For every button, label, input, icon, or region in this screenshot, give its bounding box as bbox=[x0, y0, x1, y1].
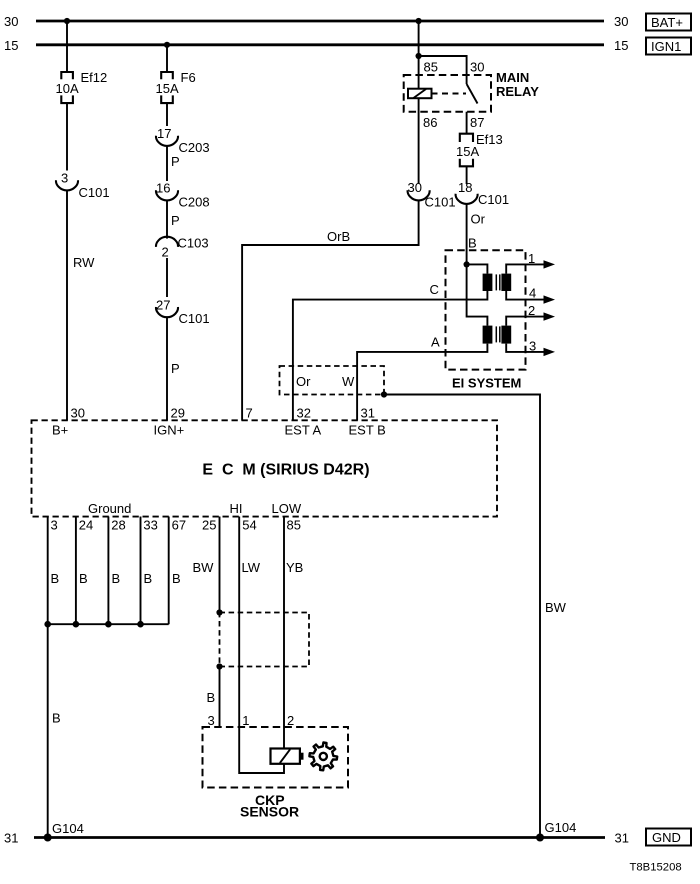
svg-text:SENSOR: SENSOR bbox=[240, 804, 299, 820]
BAT+ terminal box bbox=[646, 14, 691, 31]
svg-text:YB: YB bbox=[286, 560, 303, 575]
wire C from ECM pin 32 to coil1 bbox=[293, 282, 488, 421]
svg-text:Ground: Ground bbox=[88, 501, 131, 516]
fuse F6 15A bbox=[156, 70, 196, 103]
fuse Ef13 15A bbox=[456, 132, 503, 166]
svg-text:3: 3 bbox=[61, 171, 68, 186]
connector 17 C203 bbox=[156, 126, 210, 155]
connector 16 C208 bbox=[156, 181, 210, 210]
spark output 2 bbox=[506, 303, 555, 326]
ECM box bbox=[32, 420, 498, 516]
svg-text:OrB: OrB bbox=[327, 229, 350, 244]
wire B to CKP pin 3 bbox=[207, 667, 220, 728]
svg-text:3: 3 bbox=[51, 518, 58, 533]
junction on bus 30 at fuse Ef12 bbox=[64, 18, 70, 24]
svg-text:EI SYSTEM: EI SYSTEM bbox=[452, 376, 521, 391]
junction on bus 15 at fuse F6 bbox=[164, 42, 170, 48]
wire Or B from 18 C101 to EI system bbox=[467, 204, 486, 265]
svg-text:G104: G104 bbox=[52, 821, 84, 836]
CKP gear wheel bbox=[309, 743, 337, 771]
ECM pin 33 bbox=[141, 517, 158, 625]
ignition coil 1 secondary bbox=[501, 274, 511, 291]
wire fuse F6 to connector C203 bbox=[166, 103, 168, 126]
svg-text:C103: C103 bbox=[178, 236, 209, 251]
ECM pin 3 bbox=[48, 517, 59, 625]
wire B to coil1 primary bbox=[467, 264, 488, 273]
connector 18 C101 bbox=[456, 180, 510, 207]
svg-text:1: 1 bbox=[528, 251, 535, 266]
connector 3 C101 bbox=[56, 171, 110, 201]
fuse Ef12 10A bbox=[56, 70, 108, 103]
svg-text:3: 3 bbox=[529, 339, 536, 354]
wire P to connector C208 bbox=[167, 146, 180, 181]
svg-text:IGN+: IGN+ bbox=[154, 423, 185, 438]
ground bus join line bbox=[48, 623, 169, 625]
ECM pin 24 bbox=[76, 517, 93, 625]
svg-text:E C M (SIRIUS D42R): E C M (SIRIUS D42R) bbox=[202, 462, 369, 479]
ECM pin 67 bbox=[169, 517, 186, 625]
junction shield drain bbox=[381, 391, 387, 397]
svg-text:B: B bbox=[144, 571, 153, 586]
connector 30 C101 bbox=[408, 180, 456, 210]
svg-text:32: 32 bbox=[297, 406, 311, 421]
svg-text:B: B bbox=[52, 711, 61, 726]
svg-text:B: B bbox=[51, 571, 60, 586]
svg-text:RW: RW bbox=[73, 255, 95, 270]
svg-text:30: 30 bbox=[4, 14, 18, 29]
svg-text:BW: BW bbox=[193, 560, 215, 575]
svg-text:30: 30 bbox=[408, 180, 422, 195]
ignition coil 2 primary bbox=[483, 326, 493, 344]
ECM pin 29 label bbox=[154, 406, 185, 438]
svg-text:B+: B+ bbox=[52, 423, 68, 438]
svg-text:MAIN: MAIN bbox=[496, 70, 529, 85]
svg-text:2: 2 bbox=[528, 303, 535, 318]
svg-text:A: A bbox=[431, 335, 440, 350]
svg-text:GND: GND bbox=[652, 830, 681, 845]
ignition coil 2 core bbox=[496, 326, 500, 342]
svg-text:85: 85 bbox=[424, 60, 438, 75]
svg-text:C: C bbox=[430, 282, 439, 297]
wire A W from ECM pin 31 to coil2 bbox=[357, 335, 487, 421]
ECM pin 32 label bbox=[285, 406, 322, 438]
svg-text:2: 2 bbox=[162, 245, 169, 260]
svg-text:EST A: EST A bbox=[285, 423, 322, 438]
svg-text:29: 29 bbox=[171, 406, 185, 421]
junction on bus 30 at relay feed bbox=[416, 18, 422, 24]
svg-text:P: P bbox=[171, 213, 180, 228]
ECM bottom labels Ground HI LOW bbox=[88, 501, 302, 516]
GND terminal box bbox=[646, 829, 691, 846]
svg-text:31: 31 bbox=[361, 406, 375, 421]
wire B to G104 bbox=[48, 624, 61, 837]
svg-text:B: B bbox=[112, 571, 121, 586]
svg-text:86: 86 bbox=[423, 115, 437, 130]
ECM pin 25 BW wire bbox=[193, 517, 220, 613]
IGN1 terminal box bbox=[646, 38, 691, 55]
junction B in EI system bbox=[464, 261, 470, 267]
svg-text:Ef12: Ef12 bbox=[81, 70, 108, 85]
shield box around LW YB bbox=[220, 613, 310, 667]
svg-text:C101: C101 bbox=[478, 192, 509, 207]
svg-text:B: B bbox=[207, 690, 216, 705]
ECM pin 54 LW wire to CKP pin 1 bbox=[239, 517, 261, 728]
junction G104 right bbox=[536, 820, 576, 842]
svg-text:Ef13: Ef13 bbox=[476, 132, 503, 147]
ECM pin 28 bbox=[108, 517, 125, 625]
ECM pin 30 label bbox=[52, 406, 85, 438]
svg-text:Or: Or bbox=[296, 374, 311, 389]
svg-text:BAT+: BAT+ bbox=[651, 15, 683, 30]
svg-text:7: 7 bbox=[246, 406, 253, 421]
junction relay branch bbox=[416, 53, 422, 59]
ECM pin 85 YB wire to CKP pin 2 bbox=[284, 517, 303, 728]
junction shield top bbox=[216, 609, 222, 615]
svg-text:B: B bbox=[468, 236, 477, 251]
svg-text:B: B bbox=[79, 571, 88, 586]
svg-text:LOW: LOW bbox=[272, 501, 302, 516]
svg-text:15A: 15A bbox=[156, 81, 179, 96]
svg-text:30: 30 bbox=[470, 60, 484, 75]
svg-text:Or: Or bbox=[471, 212, 486, 227]
svg-text:2: 2 bbox=[287, 713, 294, 728]
svg-text:54: 54 bbox=[242, 518, 256, 533]
connector 2 C103 (dome) bbox=[156, 236, 209, 260]
ignition coil 1 primary bbox=[483, 274, 493, 291]
svg-text:C101: C101 bbox=[79, 185, 110, 200]
svg-text:28: 28 bbox=[111, 518, 125, 533]
svg-text:30: 30 bbox=[71, 406, 85, 421]
svg-text:27: 27 bbox=[156, 298, 170, 313]
main relay box bbox=[404, 60, 539, 131]
connector 27 C101 bbox=[156, 298, 210, 327]
svg-text:W: W bbox=[342, 374, 355, 389]
svg-text:30: 30 bbox=[614, 14, 628, 29]
CKP pin2 wire inside bbox=[283, 727, 285, 749]
svg-text:HI: HI bbox=[230, 501, 243, 516]
svg-text:3: 3 bbox=[208, 713, 215, 728]
svg-text:G104: G104 bbox=[545, 820, 577, 835]
svg-text:RELAY: RELAY bbox=[496, 84, 539, 99]
wire bus30 down to relay branch bbox=[418, 21, 420, 56]
svg-text:B: B bbox=[172, 571, 181, 586]
junction shield bottom bbox=[216, 663, 222, 669]
shield box around Or W bbox=[280, 366, 385, 395]
svg-text:F6: F6 bbox=[181, 70, 196, 85]
svg-text:31: 31 bbox=[4, 831, 18, 846]
wire branch to relay pin 30 bbox=[419, 56, 467, 84]
junction G104 left bbox=[44, 821, 84, 842]
svg-text:33: 33 bbox=[143, 518, 157, 533]
svg-text:IGN1: IGN1 bbox=[651, 39, 681, 54]
wire Ef13 to connector 18 C101 bbox=[466, 166, 468, 184]
svg-text:P: P bbox=[171, 154, 180, 169]
bus 31 (GND) bbox=[4, 831, 629, 846]
svg-text:85: 85 bbox=[287, 518, 301, 533]
wire BW shield drain to right side bbox=[384, 395, 567, 838]
svg-text:C208: C208 bbox=[179, 195, 210, 210]
spark output 4 bbox=[506, 286, 555, 304]
svg-text:18: 18 bbox=[458, 180, 472, 195]
ignition coil 2 secondary bbox=[501, 326, 511, 344]
svg-text:LW: LW bbox=[242, 560, 261, 575]
svg-text:16: 16 bbox=[156, 181, 170, 196]
svg-text:EST B: EST B bbox=[349, 423, 386, 438]
wire fuse Ef12 to connector C101 bbox=[66, 103, 68, 170]
CKP pin1 wire inside bbox=[239, 727, 284, 773]
svg-text:67: 67 bbox=[172, 518, 186, 533]
CKP pickup element bbox=[271, 749, 304, 764]
wire OrB from C101 to ECM pin 7 bbox=[242, 200, 419, 420]
relay switch blade bbox=[467, 84, 478, 104]
wire bus15 to fuse F6 bbox=[166, 45, 168, 72]
CKP sensor box bbox=[203, 727, 349, 820]
svg-text:1: 1 bbox=[242, 713, 249, 728]
wire relay pin 86 down bbox=[418, 98, 420, 183]
spark output 1 bbox=[506, 251, 555, 274]
svg-text:10A: 10A bbox=[56, 81, 79, 96]
svg-text:C101: C101 bbox=[425, 195, 456, 210]
wire B to coil2 primary bbox=[467, 264, 488, 325]
wire P to ECM pin 29 bbox=[167, 317, 180, 420]
bus 30 (BAT+) bbox=[4, 14, 628, 29]
svg-text:15A: 15A bbox=[456, 144, 479, 159]
bus 15 (IGN1) bbox=[4, 38, 628, 53]
spark output 3 bbox=[506, 339, 555, 357]
svg-text:P: P bbox=[171, 361, 180, 376]
wire to relay pin 85 bbox=[418, 56, 420, 89]
ECM pin 31 label bbox=[349, 406, 386, 438]
wire relay pin 87 to fuse Ef13 bbox=[466, 112, 468, 134]
svg-text:15: 15 bbox=[4, 38, 18, 53]
svg-text:25: 25 bbox=[202, 518, 216, 533]
EI system box bbox=[446, 250, 526, 390]
wire P to connector C103 bbox=[167, 200, 180, 238]
relay link (dashed) bbox=[432, 93, 467, 95]
relay coil bbox=[408, 89, 432, 99]
svg-text:C101: C101 bbox=[179, 311, 210, 326]
svg-text:31: 31 bbox=[615, 831, 629, 846]
ignition coil 1 core bbox=[496, 274, 500, 290]
junction dots ground join bbox=[44, 621, 143, 628]
wire bus30 to fuse Ef12 bbox=[66, 21, 68, 72]
svg-text:BW: BW bbox=[545, 600, 567, 615]
svg-text:15: 15 bbox=[614, 38, 628, 53]
wire RW to ECM pin 30 bbox=[67, 190, 95, 420]
svg-text:87: 87 bbox=[470, 115, 484, 130]
svg-text:4: 4 bbox=[529, 286, 536, 301]
wire C103 to connector 27 C101 bbox=[166, 258, 168, 297]
svg-text:24: 24 bbox=[79, 518, 93, 533]
svg-text:T8B15208: T8B15208 bbox=[630, 862, 682, 874]
svg-text:17: 17 bbox=[157, 126, 171, 141]
svg-text:C203: C203 bbox=[179, 140, 210, 155]
